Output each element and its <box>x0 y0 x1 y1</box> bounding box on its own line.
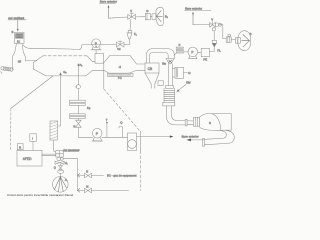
svg-text:V: V <box>211 17 213 21</box>
svg-text:T: T <box>106 118 108 122</box>
svg-text:FL: FL <box>217 49 221 53</box>
svg-text:A: A <box>65 178 67 182</box>
svg-text:P: P <box>96 132 99 136</box>
svg-text:Spre exterior: Spre exterior <box>182 134 199 138</box>
svg-text:Vd: Vd <box>117 47 121 51</box>
svg-text:B: B <box>12 30 14 34</box>
svg-text:TC: TC <box>118 76 122 80</box>
svg-text:G: G <box>188 71 191 75</box>
svg-text:CB: CB <box>148 67 153 71</box>
svg-text:N: N <box>74 126 76 129</box>
svg-text:F: F <box>179 43 181 47</box>
svg-text:F₁: F₁ <box>134 32 137 36</box>
svg-text:I: I <box>32 137 33 141</box>
svg-text:H: H <box>119 65 121 69</box>
svg-text:G: G <box>146 9 148 13</box>
svg-text:BM: BM <box>186 81 191 85</box>
svg-text:B: B <box>250 32 252 36</box>
svg-text:B₁: B₁ <box>165 14 168 18</box>
svg-text:R: R <box>19 146 21 150</box>
svg-text:Spre exterior: Spre exterior <box>185 6 202 10</box>
svg-text:PE: PE <box>203 57 207 61</box>
svg-text:R: R <box>209 121 211 125</box>
svg-text:Q: Q <box>54 166 56 170</box>
svg-text:N: N <box>86 169 88 173</box>
svg-text:P: P <box>95 42 98 46</box>
svg-text:Circuit doze pentru încercăril: Circuit doze pentru încercările motoarel… <box>7 193 74 197</box>
svg-text:Fp: Fp <box>87 106 91 110</box>
svg-text:G₀: G₀ <box>63 70 67 74</box>
svg-text:Q: Q <box>120 120 123 124</box>
svg-text:AFED: AFED <box>23 157 32 161</box>
svg-text:BC - gaz de eșapament: BC - gaz de eșapament <box>107 174 137 178</box>
svg-text:V₁: V₁ <box>65 161 68 165</box>
svg-text:P₀: P₀ <box>80 64 83 67</box>
svg-text:P: P <box>191 50 193 54</box>
svg-text:Spre exterior: Spre exterior <box>100 0 117 4</box>
svg-text:B.I: B.I <box>17 41 20 44</box>
svg-text:aer ambiant: aer ambiant <box>8 16 24 20</box>
svg-text:Bm: Bm <box>162 63 166 66</box>
svg-text:M: M <box>86 185 88 189</box>
svg-text:V: V <box>130 9 132 13</box>
